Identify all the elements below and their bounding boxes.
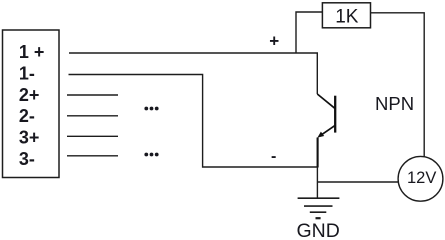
ellipsis dots upper [144, 107, 158, 111]
ellipsis dots lower [144, 153, 158, 157]
ground symbol [298, 198, 340, 218]
wire stub 3- [67, 155, 118, 157]
wire 1+ to collector (node C) [69, 53, 317, 94]
transistor Q1 base bar [334, 96, 336, 133]
svg-text:1-: 1- [19, 63, 35, 83]
terminal block J1 [3, 30, 60, 178]
wire stub 3+ [67, 135, 118, 137]
transistor Q1 emitter arrowhead [317, 132, 324, 138]
svg-text:2+: 2+ [19, 85, 40, 105]
wire to 12V source [317, 181, 398, 183]
transistor Q1 collector slant [317, 94, 335, 108]
resistor R1 (1K) [322, 3, 370, 28]
voltage source V1 12V [398, 156, 443, 201]
svg-text:GND: GND [297, 220, 340, 240]
svg-text:3-: 3- [19, 149, 35, 169]
wire stub 2+ [67, 94, 118, 96]
svg-text:12V: 12V [407, 169, 436, 187]
wire emitter down to ground (node E) [317, 138, 319, 168]
wire R1 to 12V source [371, 13, 425, 157]
transistor Q1 emitter slant with arrow [319, 126, 335, 137]
svg-text:-: - [271, 148, 276, 165]
svg-text:2-: 2- [19, 106, 35, 126]
svg-text:3+: 3+ [19, 128, 40, 148]
svg-text:1 +: 1 + [19, 42, 45, 62]
wire branch to resistor R1 [296, 12, 322, 53]
svg-text:NPN: NPN [375, 93, 414, 114]
svg-text:+: + [269, 32, 279, 51]
wire 1- to emitter (node E) [69, 75, 318, 168]
svg-text:1K: 1K [335, 6, 359, 27]
wire stub 2- [67, 115, 118, 117]
wire emitter junction to ground [316, 167, 318, 198]
